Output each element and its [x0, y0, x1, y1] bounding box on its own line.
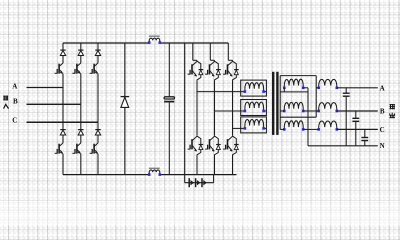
transformer T1 secondary winding S1	[284, 79, 303, 88]
wire	[283, 88, 285, 92]
node primary 3 left terminal	[244, 127, 247, 130]
node secondary 3 left terminal	[283, 128, 286, 131]
node L1 left terminal	[148, 41, 151, 44]
wire inverter leg 3 top drop	[227, 43, 229, 60]
wire stub	[264, 91, 267, 93]
wire phase B line	[27, 103, 81, 105]
svg-text:B: B	[380, 107, 385, 115]
wire rectifier leg 3 lower drop	[97, 122, 99, 129]
wire output line B	[337, 110, 378, 112]
wire primary winding 2 wrap loop	[241, 100, 267, 116]
diode D14 (series chain)	[188, 178, 190, 187]
diode D15 (series chain)	[195, 178, 197, 187]
wire	[315, 76, 317, 118]
svg-text:C: C	[380, 126, 385, 134]
wire to phase line	[62, 74, 64, 88]
transistor Q8 (IGBT, inverter upper leg 2) with diode D9	[215, 60, 219, 80]
wire inverter input rail	[184, 43, 186, 175]
wire stub	[264, 127, 267, 129]
inductor L2 (bottom DC-link choke)	[149, 168, 160, 169]
wire	[280, 110, 284, 112]
label input (shu)	[3, 96, 8, 101]
node secondary 2 right terminal	[302, 110, 305, 113]
wire	[303, 87, 308, 89]
wire row1 bottom link	[280, 91, 308, 93]
wire to bottom rail	[196, 156, 198, 175]
capacitor C4 branch	[364, 129, 366, 137]
transformer T1 primary winding P1	[245, 83, 264, 92]
node primary 1 right terminal	[262, 90, 265, 93]
transformer T1 core	[272, 72, 274, 135]
node primary 3 right terminal	[262, 127, 265, 130]
wire inverter leg 3 midpoint	[232, 81, 234, 136]
node L2 right terminal	[159, 173, 162, 176]
svg-text:N: N	[380, 142, 385, 150]
label output (chu)	[389, 113, 395, 118]
wire output line C	[337, 128, 378, 130]
svg-text:A: A	[380, 84, 385, 92]
wire inverter leg 1 midpoint	[196, 81, 198, 136]
diode D7 (freewheel)	[121, 96, 130, 98]
label input (ru)	[4, 104, 9, 109]
transistor Q6 (IGBT, rectifier lower leg 3)	[94, 143, 98, 147]
wire secondary middle bus	[307, 88, 309, 146]
node choke 1 right terminal	[336, 87, 339, 90]
capacitor C2 (A-N)	[343, 92, 350, 94]
diode D5 (rectifier lower leg 2)	[78, 129, 83, 131]
wire rectifier leg 1 lower drop	[62, 88, 64, 130]
wire rectifier leg 1 upper drop	[62, 43, 64, 50]
wire rectifier leg 3 upper drop	[97, 43, 99, 50]
transformer T1 secondary winding S2	[284, 102, 303, 111]
wire phase C line	[27, 121, 99, 123]
diode D1 (rectifier upper leg 1)	[60, 49, 65, 51]
node choke 2 right terminal	[336, 110, 339, 113]
svg-text:A: A	[12, 83, 17, 91]
node primary 2 left terminal	[244, 110, 247, 113]
wire freewheel diode branch	[124, 43, 126, 97]
transformer T1 secondary winding S3	[284, 121, 303, 130]
svg-text:B: B	[13, 97, 18, 105]
node choke 1 left terminal	[317, 87, 320, 90]
node choke 2 left terminal	[317, 110, 320, 113]
capacitor C3 branch	[355, 111, 357, 118]
wire secondary left bus	[279, 76, 281, 130]
inductor L4 (output filter choke 2)	[319, 103, 337, 111]
transistor Q3 (IGBT, rectifier upper leg 3)	[94, 63, 98, 67]
transistor Q4 (IGBT, rectifier lower leg 1)	[59, 143, 63, 147]
wire inverter output line 2	[215, 110, 245, 112]
wire inverter leg 1 top drop	[192, 43, 194, 60]
wire to bottom rail	[232, 156, 234, 175]
wire inverter leg 2 midpoint	[214, 81, 216, 136]
node choke 3 left terminal	[317, 128, 320, 131]
diode D16 (series chain)	[201, 178, 203, 187]
wire snubber sub-branch right	[213, 175, 215, 183]
wire	[80, 56, 82, 64]
node primary 2 right terminal	[262, 110, 265, 113]
capacitor C2 branch	[345, 88, 347, 93]
wire to phase line	[97, 74, 99, 123]
diode D3 (rectifier upper leg 3)	[95, 49, 100, 51]
node secondary 3 right terminal	[302, 128, 305, 131]
wire neutral line N	[308, 145, 378, 147]
wire	[62, 135, 64, 143]
wire row3 link	[303, 128, 319, 130]
capacitor C1 (DC-link)	[164, 97, 174, 99]
diode D4 (rectifier lower leg 1)	[60, 129, 65, 131]
diode D2 (rectifier upper leg 2)	[78, 49, 83, 51]
svg-text:C: C	[12, 117, 17, 125]
node secondary 1 left terminal	[283, 87, 286, 90]
transistor Q12 (IGBT, inverter lower leg 3) with diode D13	[233, 135, 237, 155]
wire DC-link capacitor branch	[168, 43, 170, 97]
wire snubber sub-branch left	[184, 175, 186, 183]
inductor L3 (output filter choke 1)	[319, 79, 337, 87]
wire inverter output line 3	[233, 127, 245, 129]
node L2 left terminal	[148, 173, 151, 176]
wire to phase line	[80, 74, 82, 105]
capacitor C4 (C-N)	[361, 137, 368, 139]
transistor Q10 (IGBT, inverter lower leg 1) with diode D11	[197, 135, 201, 155]
wire	[280, 128, 284, 130]
label output (shu)	[390, 104, 395, 109]
node choke 3 right terminal	[336, 128, 339, 131]
wire row2 link	[303, 110, 319, 112]
wire primary winding 1 wrap loop	[241, 80, 267, 96]
inductor L1 (top DC-link choke)	[149, 36, 160, 37]
wire rectifier leg 2 upper drop	[80, 43, 82, 50]
wire to bottom rail	[214, 156, 216, 175]
wire to bottom rail	[97, 154, 99, 175]
transistor Q7 (IGBT, inverter upper leg 1) with diode D8	[197, 60, 201, 80]
wire	[316, 87, 319, 89]
transistor Q2 (IGBT, rectifier upper leg 2)	[77, 63, 81, 67]
wire primary winding 3 wrap loop	[241, 117, 267, 133]
transistor Q5 (IGBT, rectifier lower leg 2)	[77, 143, 81, 147]
capacitor C3 (B-N)	[352, 117, 359, 119]
wire output line A	[337, 87, 378, 89]
wire	[97, 135, 99, 143]
wire inverter output line 1	[197, 91, 245, 93]
transistor Q9 (IGBT, inverter upper leg 3) with diode D10	[233, 60, 237, 80]
wire phase A line	[27, 87, 64, 89]
wire rectifier top rail	[63, 42, 149, 44]
wire inverter leg 2 top drop	[209, 43, 211, 60]
wire	[80, 135, 82, 143]
wire to bottom rail	[62, 154, 64, 175]
node secondary 1 right terminal	[302, 87, 305, 90]
transformer T1 primary winding P3	[245, 119, 264, 128]
wire row2 bottom link	[280, 116, 316, 118]
node secondary 2 left terminal	[283, 110, 286, 113]
wire stub	[264, 110, 267, 112]
transistor Q11 (IGBT, inverter lower leg 2) with diode D12	[215, 135, 219, 155]
wire	[62, 56, 64, 64]
wire secondary top loop	[280, 75, 316, 77]
inductor L5 (output filter choke 3)	[319, 121, 337, 129]
wire rectifier leg 2 lower drop	[80, 104, 82, 129]
transformer T1 primary winding P2	[245, 102, 264, 111]
diode D6 (rectifier lower leg 3)	[95, 129, 100, 131]
node primary 1 left terminal	[244, 90, 247, 93]
transistor Q1 (IGBT, rectifier upper leg 1)	[59, 63, 63, 67]
wire to bottom rail	[80, 154, 82, 175]
wire rectifier bottom rail	[63, 174, 149, 176]
wire	[97, 56, 99, 64]
node L1 right terminal	[159, 41, 162, 44]
